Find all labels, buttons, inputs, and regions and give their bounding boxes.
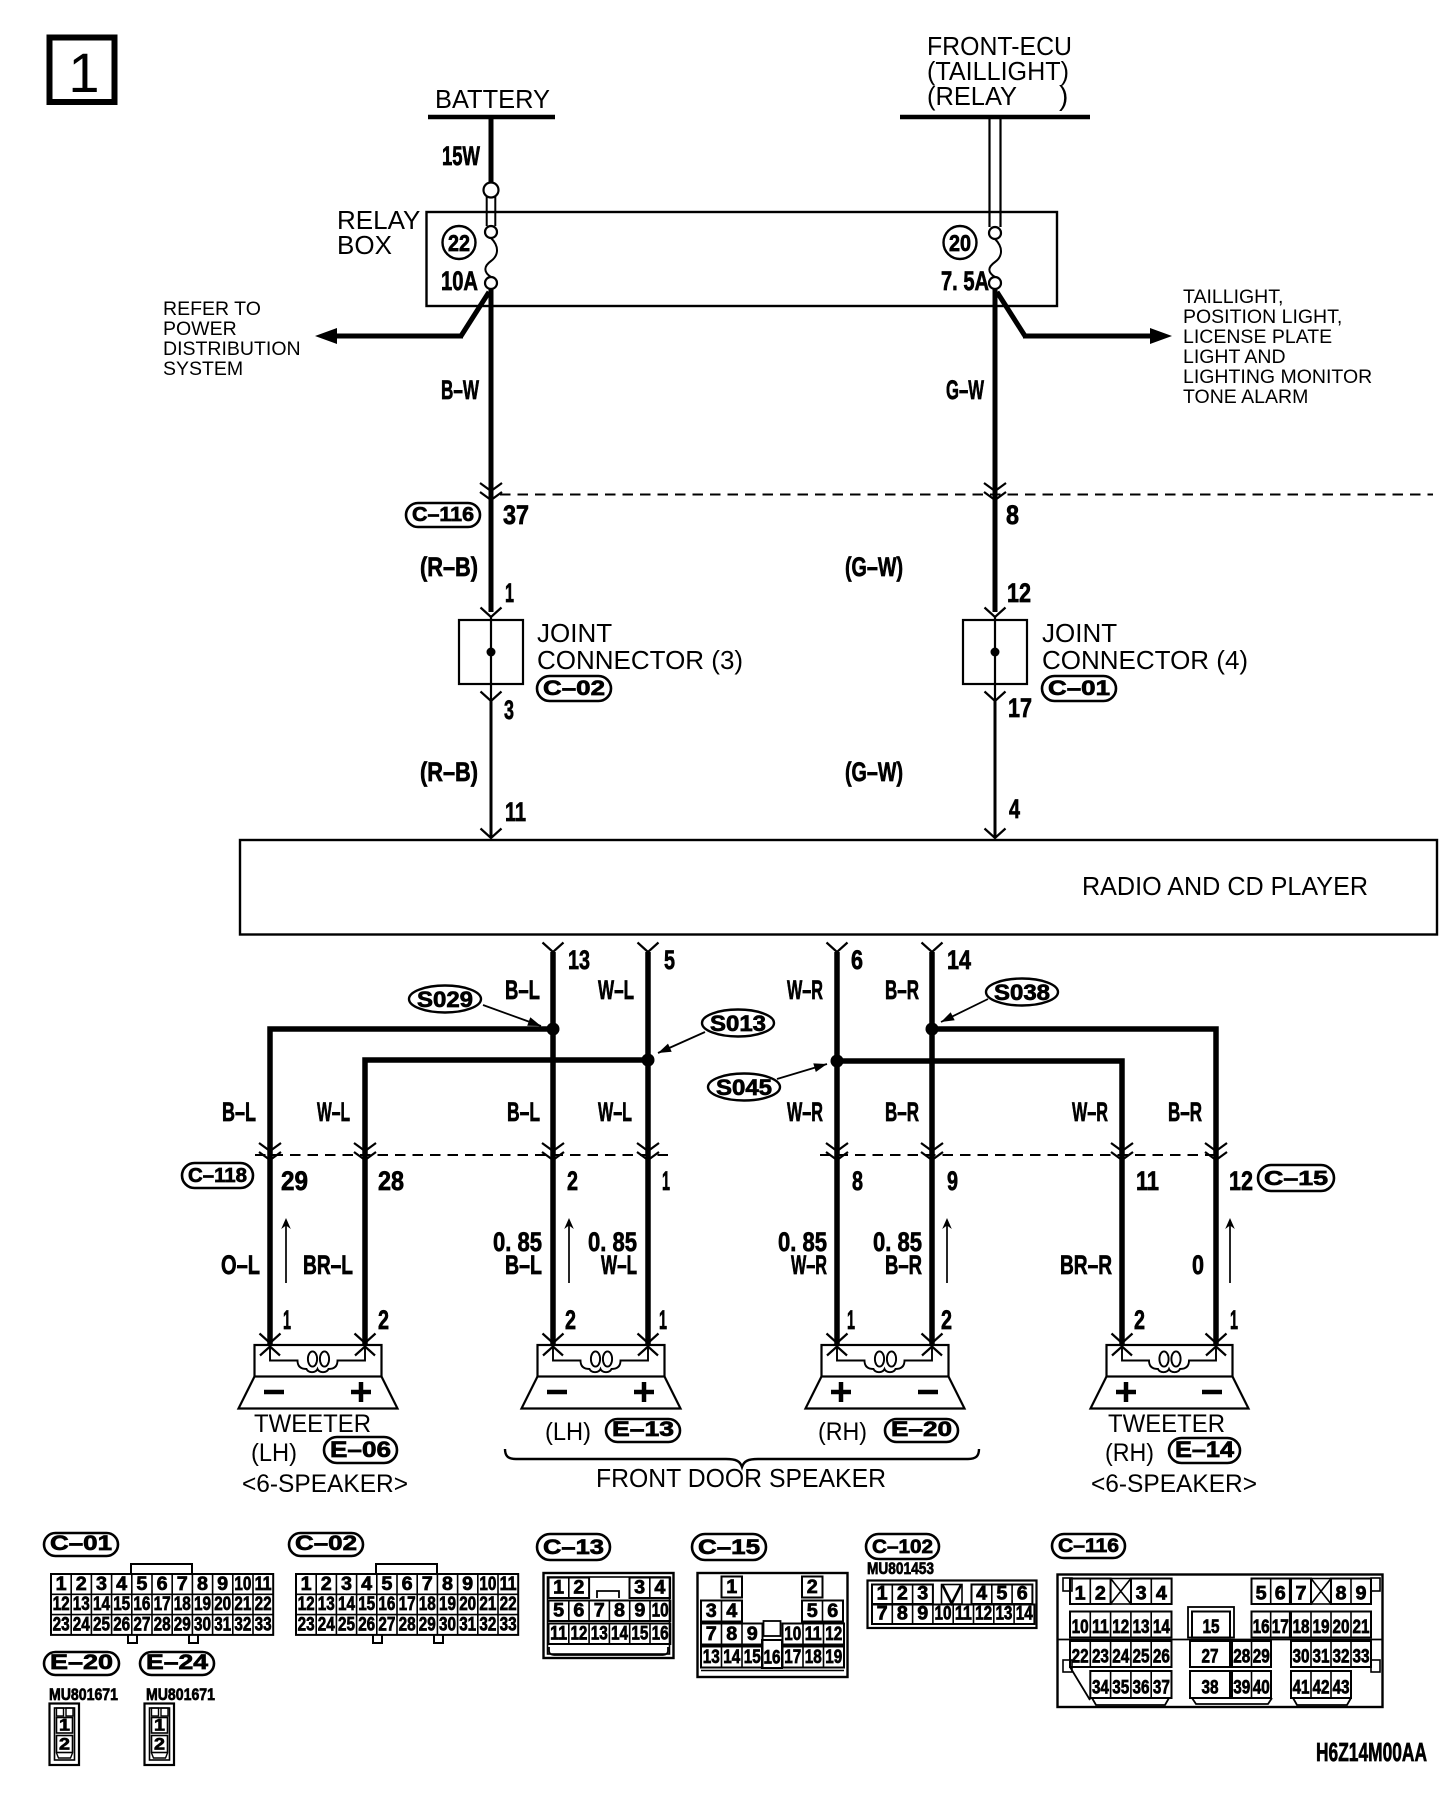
svg-text:1: 1 [283,1305,291,1335]
svg-text:32: 32 [1333,1647,1350,1668]
svg-text:15: 15 [631,1624,648,1645]
svg-text:MU801671: MU801671 [146,1685,215,1704]
svg-text:30: 30 [194,1614,211,1635]
svg-text:2: 2 [941,1305,952,1335]
svg-text:29: 29 [281,1166,308,1196]
svg-text:1: 1 [877,1584,888,1605]
svg-text:28: 28 [1233,1647,1250,1668]
wire codes above C-118/C-15 [222,1097,1202,1127]
fuse 22 10A [441,226,497,296]
joint connector (3) C-02 [459,608,743,726]
svg-text:17: 17 [154,1594,171,1615]
chevron crossing at x=932 [921,1143,943,1160]
svg-text:12: 12 [1229,1166,1253,1196]
svg-text:2: 2 [59,1735,70,1754]
up arrow 4 [1225,1218,1235,1283]
svg-text:S029: S029 [417,987,473,1012]
svg-text:18: 18 [419,1594,436,1615]
svg-text:POWER: POWER [163,318,237,340]
svg-text:16: 16 [764,1648,781,1669]
svg-text:14: 14 [338,1594,355,1615]
svg-text:E–24: E–24 [146,1651,208,1674]
svg-text:(R–B): (R–B) [420,552,478,582]
svg-text:14: 14 [1153,1617,1170,1638]
svg-text:13: 13 [568,945,590,975]
svg-text:B–L: B–L [222,1097,256,1127]
svg-text:2: 2 [567,1166,578,1196]
svg-text:BOX: BOX [337,230,392,260]
svg-text:33: 33 [500,1614,517,1635]
svg-text:2: 2 [321,1574,332,1595]
svg-text:11: 11 [255,1574,272,1595]
wire (R-B) lower [420,701,526,838]
svg-text:B–W: B–W [441,375,479,405]
svg-text:16: 16 [652,1624,669,1645]
wire BR-R [1060,1250,1112,1280]
splice S045 [708,1055,844,1101]
svg-text:26: 26 [113,1614,130,1635]
svg-text:17: 17 [399,1594,416,1615]
svg-text:7. 5A: 7. 5A [941,266,989,296]
svg-text:8: 8 [1336,1584,1347,1605]
svg-text:30: 30 [1293,1647,1310,1668]
battery [428,84,555,117]
svg-text:22: 22 [500,1594,517,1615]
speaker entry chevrons x=837 [827,1334,848,1356]
svg-text:9: 9 [217,1574,228,1595]
connector C-01 pinout [44,1532,273,1643]
connector C-15 pinout [692,1534,848,1677]
svg-text:4: 4 [726,1601,737,1622]
connector C-02 pinout [289,1532,518,1643]
svg-text:5: 5 [807,1601,818,1622]
wire 0.85 B-L [493,1227,542,1280]
svg-text:4: 4 [361,1574,372,1595]
speaker entry chevrons x=932 [922,1334,943,1356]
svg-text:TONE ALARM: TONE ALARM [1183,386,1308,408]
svg-text:14: 14 [1016,1604,1033,1625]
wire 0.85 W-L [588,1227,637,1280]
svg-text:C–118: C–118 [188,1165,247,1187]
svg-text:21: 21 [1353,1617,1370,1638]
svg-text:6: 6 [827,1601,838,1622]
svg-text:24: 24 [318,1614,335,1635]
svg-text:4: 4 [654,1578,665,1599]
tweeter RH speaker E-14 [1091,1345,1258,1498]
svg-text:2: 2 [76,1574,87,1595]
wire W-R main [787,952,837,1345]
svg-text:14: 14 [723,1647,740,1668]
speaker entry chevrons x=365 [355,1334,376,1356]
svg-text:33: 33 [255,1614,272,1635]
svg-text:10: 10 [935,1604,952,1625]
svg-text:7: 7 [706,1624,717,1645]
svg-text:9: 9 [1356,1584,1367,1605]
up arrow 1 [281,1218,291,1283]
svg-text:20: 20 [459,1594,476,1615]
svg-text:27: 27 [1202,1647,1219,1668]
svg-text:1: 1 [726,1577,737,1598]
svg-text:C–13: C–13 [543,1536,604,1559]
svg-text:CONNECTOR (3): CONNECTOR (3) [537,645,743,675]
svg-text:8: 8 [614,1601,625,1622]
svg-text:TWEETER: TWEETER [254,1410,371,1438]
branch wire to tweeter LH pin2 [365,1060,648,1345]
wire 0.85 B-R [873,1227,922,1280]
speaker entry chevrons x=270 [260,1334,281,1356]
svg-text:15W: 15W [442,141,480,171]
svg-text:S013: S013 [710,1011,766,1036]
svg-text:(RH): (RH) [1105,1439,1154,1467]
svg-text:35: 35 [1112,1678,1129,1699]
wire 0 [1192,1250,1204,1280]
svg-text:7: 7 [877,1604,888,1625]
svg-text:(RH): (RH) [818,1418,867,1446]
tweeter LH speaker E-06 [239,1345,409,1498]
svg-text:W–R: W–R [1072,1097,1108,1127]
refer to power distribution system arrow [163,292,489,380]
svg-text:W–L: W–L [598,1097,632,1127]
dashed harness line C-15 [820,1154,1223,1156]
chevron crossing at x=365 [354,1143,376,1160]
svg-text:(RELAY: (RELAY [927,81,1017,111]
svg-text:12: 12 [975,1604,992,1625]
svg-text:34: 34 [1092,1678,1109,1699]
svg-text:11: 11 [550,1624,567,1645]
svg-text:16: 16 [133,1594,150,1615]
svg-text:E–20: E–20 [891,1418,952,1441]
radio pin 13 [543,943,591,976]
svg-text:12: 12 [1007,578,1031,608]
up arrow 2 [564,1218,574,1283]
svg-text:0: 0 [1192,1250,1204,1280]
svg-text:MU801671: MU801671 [49,1685,118,1704]
svg-text:12: 12 [825,1624,842,1645]
wire B-W [441,289,491,612]
svg-text:29: 29 [1253,1647,1270,1668]
svg-text:18: 18 [174,1594,191,1615]
svg-text:1: 1 [659,1305,667,1335]
svg-text:40: 40 [1253,1678,1270,1699]
svg-text:7: 7 [1296,1584,1307,1605]
connector C-15 label [1258,1165,1334,1191]
svg-text:8: 8 [442,1574,453,1595]
svg-text:11: 11 [805,1624,822,1645]
connector crossing right pin 8 [984,483,1019,530]
svg-text:11: 11 [505,797,526,827]
svg-text:3: 3 [504,695,514,725]
svg-text:E–13: E–13 [612,1418,674,1441]
svg-text:24: 24 [1112,1647,1129,1668]
C-15 pin numbers [852,1166,1253,1196]
svg-text:DISTRIBUTION: DISTRIBUTION [163,338,301,360]
svg-text:C–01: C–01 [1048,677,1110,700]
svg-text:4: 4 [116,1574,127,1595]
svg-text:3: 3 [917,1584,928,1605]
svg-text:3: 3 [706,1601,717,1622]
svg-text:38: 38 [1202,1678,1219,1699]
svg-text:15: 15 [113,1594,130,1615]
svg-text:RADIO AND CD PLAYER: RADIO AND CD PLAYER [1082,871,1368,901]
svg-text:6: 6 [1275,1584,1286,1605]
radio pin 14 [922,943,972,976]
svg-text:BATTERY: BATTERY [435,84,550,114]
svg-text:20: 20 [1333,1617,1350,1638]
svg-text:1: 1 [59,1716,70,1735]
svg-text:1: 1 [154,1716,165,1735]
svg-text:6: 6 [573,1601,584,1622]
svg-text:28: 28 [399,1614,416,1635]
svg-text:37: 37 [1153,1678,1170,1699]
svg-text:2: 2 [378,1305,389,1335]
svg-text:SYSTEM: SYSTEM [163,358,243,380]
svg-text:5: 5 [1256,1584,1267,1605]
taillight etc arrow [997,286,1372,408]
page number 1 box [50,38,115,105]
wire (R-B) label [420,552,514,608]
svg-text:31: 31 [459,1614,476,1635]
svg-text:6: 6 [157,1574,168,1595]
splice S013 [642,1010,775,1067]
svg-text:(LH): (LH) [251,1439,297,1467]
svg-text:(G–W): (G–W) [845,552,903,582]
svg-text:<6-SPEAKER>: <6-SPEAKER> [242,1470,408,1498]
svg-text:28: 28 [154,1614,171,1635]
svg-text:6: 6 [402,1574,413,1595]
svg-text:13: 13 [73,1594,90,1615]
svg-text:TAILLIGHT,: TAILLIGHT, [1183,286,1283,308]
svg-text:19: 19 [439,1594,456,1615]
svg-text:14: 14 [947,945,971,975]
svg-text:2: 2 [807,1577,818,1598]
svg-text:(LH): (LH) [545,1418,591,1446]
svg-text:7: 7 [594,1601,605,1622]
branch wire to tweeter RH pin1 [932,1029,1216,1345]
svg-text:5: 5 [136,1574,147,1595]
connector E-20 pinout [44,1651,119,1765]
svg-text:C–01: C–01 [50,1532,112,1555]
drawing code H6Z14M00AA [1316,1737,1427,1767]
svg-text:22: 22 [255,1594,272,1615]
wire W-L main [598,952,648,1345]
svg-text:20: 20 [214,1594,231,1615]
svg-text:TWEETER: TWEETER [1108,1410,1225,1438]
svg-text:33: 33 [1353,1647,1370,1668]
svg-text:32: 32 [234,1614,251,1635]
svg-text:9: 9 [634,1601,645,1622]
svg-text:W–R: W–R [791,1250,827,1280]
svg-text:1: 1 [662,1166,670,1196]
wire from battery [489,117,494,183]
svg-text:8: 8 [197,1574,208,1595]
joint connector (4) C-01 [963,608,1248,724]
svg-text:2: 2 [573,1578,584,1599]
svg-text:O–L: O–L [221,1250,260,1280]
C-118 pin numbers [281,1166,670,1196]
svg-text:FRONT DOOR SPEAKER: FRONT DOOR SPEAKER [596,1463,886,1493]
speaker entry chevrons x=1122 [1112,1334,1133,1356]
svg-text:43: 43 [1333,1678,1350,1699]
front door speaker LH E-13 [522,1345,681,1446]
wire B-R main [885,952,932,1345]
double wire from front-ECU [990,117,1001,227]
svg-text:10: 10 [784,1624,801,1645]
svg-text:19: 19 [1313,1617,1330,1638]
svg-text:17: 17 [1008,693,1032,723]
svg-text:): ) [1059,80,1068,111]
radio pin 5 [638,943,676,976]
wire B-L main [505,952,553,1345]
dashed harness line C-118 [255,1154,668,1156]
chevron crossing at x=837 [826,1143,848,1160]
branch wire to tweeter RH pin2 [837,1061,1122,1345]
svg-text:12: 12 [53,1594,70,1615]
svg-text:1: 1 [1075,1584,1086,1605]
speaker entry chevrons x=553 [543,1334,564,1356]
svg-text:MU801453: MU801453 [867,1559,934,1578]
svg-text:2: 2 [154,1735,165,1754]
svg-text:8: 8 [897,1604,908,1625]
svg-text:1: 1 [553,1578,564,1599]
svg-text:18: 18 [1293,1617,1310,1638]
svg-text:2: 2 [565,1305,576,1335]
svg-text:17: 17 [784,1647,801,1668]
svg-text:10: 10 [479,1574,496,1595]
svg-text:6: 6 [851,945,863,975]
svg-text:19: 19 [194,1594,211,1615]
svg-text:W–R: W–R [787,975,823,1005]
front door speaker RH E-20 [806,1345,965,1446]
svg-text:16: 16 [1253,1617,1270,1638]
svg-text:2: 2 [897,1584,908,1605]
svg-text:3: 3 [1136,1584,1147,1605]
dashed harness line C-116 [500,494,1433,496]
svg-text:13: 13 [591,1624,608,1645]
svg-text:23: 23 [53,1614,70,1635]
svg-text:10: 10 [1072,1617,1089,1638]
svg-text:11: 11 [500,1574,517,1595]
front door speaker brace [505,1449,979,1493]
svg-text:25: 25 [93,1614,110,1635]
svg-text:1: 1 [1230,1305,1238,1335]
svg-text:15: 15 [1203,1617,1220,1638]
up arrow 3 [942,1218,952,1283]
svg-text:W–L: W–L [598,975,634,1005]
svg-text:31: 31 [1313,1647,1330,1668]
svg-text:5: 5 [553,1601,564,1622]
svg-text:1: 1 [301,1574,312,1595]
svg-text:BR–R: BR–R [1060,1250,1112,1280]
svg-text:14: 14 [611,1624,628,1645]
svg-text:23: 23 [298,1614,315,1635]
svg-text:E–14: E–14 [1175,1437,1235,1462]
svg-text:B–L: B–L [507,1097,540,1127]
svg-text:12: 12 [1112,1617,1129,1638]
svg-text:JOINT: JOINT [1042,618,1117,648]
svg-text:13: 13 [703,1647,720,1668]
svg-text:C–02: C–02 [543,677,605,700]
svg-text:2: 2 [1134,1305,1145,1335]
svg-text:JOINT: JOINT [537,618,612,648]
connector C-118 [182,1163,253,1188]
svg-text:E–06: E–06 [330,1437,391,1462]
svg-text:17: 17 [1272,1617,1289,1638]
svg-text:9: 9 [747,1624,758,1645]
chevron crossing at x=553 [542,1143,564,1160]
svg-text:4: 4 [976,1584,987,1605]
svg-text:20: 20 [949,230,971,256]
svg-text:5: 5 [381,1574,392,1595]
svg-text:H6Z14M00AA: H6Z14M00AA [1316,1737,1427,1767]
svg-text:(G–W): (G–W) [845,757,903,787]
svg-text:25: 25 [338,1614,355,1635]
svg-text:BR–L: BR–L [303,1250,353,1280]
svg-text:31: 31 [214,1614,231,1635]
svg-text:16: 16 [378,1594,395,1615]
svg-text:36: 36 [1133,1678,1150,1699]
speaker entry chevrons x=648 [638,1334,659,1356]
radio pin 6 [827,943,864,976]
svg-text:LIGHTING MONITOR: LIGHTING MONITOR [1183,366,1372,388]
connector C-102 pinout [866,1534,1037,1628]
svg-text:25: 25 [1133,1647,1150,1668]
FRONT-ECU (TAILLIGHT RELAY) [900,31,1090,117]
svg-text:B–R: B–R [885,975,919,1005]
svg-text:13: 13 [1133,1617,1150,1638]
wire 0.85 W-R [778,1227,827,1280]
svg-text:C–116: C–116 [412,504,474,526]
svg-text:13: 13 [995,1604,1012,1625]
svg-text:B–R: B–R [885,1250,922,1280]
svg-text:C–102: C–102 [872,1537,933,1558]
svg-text:B–R: B–R [885,1097,919,1127]
svg-text:10: 10 [652,1601,669,1622]
svg-text:22: 22 [448,230,470,256]
svg-text:8: 8 [1006,500,1019,530]
radio and CD player box [240,840,1437,935]
connector C-13 pinout [537,1534,674,1658]
speaker entry chevrons x=1216 [1206,1334,1227,1356]
svg-text:4: 4 [1156,1584,1167,1605]
svg-text:23: 23 [1092,1647,1109,1668]
svg-text:(R–B): (R–B) [420,757,478,787]
svg-text:11: 11 [1136,1166,1159,1196]
svg-text:3: 3 [634,1578,645,1599]
svg-text:C–02: C–02 [295,1532,357,1555]
svg-text:21: 21 [479,1594,496,1615]
relay box [337,205,1057,306]
svg-text:7: 7 [177,1574,188,1595]
svg-text:29: 29 [174,1614,191,1635]
svg-text:12: 12 [570,1624,587,1645]
svg-text:S038: S038 [994,980,1050,1005]
svg-text:5: 5 [664,945,675,975]
branch wire to tweeter LH pin1 [270,1029,553,1345]
svg-text:29: 29 [419,1614,436,1635]
svg-text:13: 13 [318,1594,335,1615]
wire BR-L [303,1250,353,1280]
fuse 20 7.5A [941,226,1001,296]
svg-text:41: 41 [1293,1678,1310,1699]
svg-text:W–R: W–R [787,1097,823,1127]
svg-text:B–R: B–R [1168,1097,1202,1127]
svg-text:<6-SPEAKER>: <6-SPEAKER> [1091,1470,1257,1498]
svg-text:6: 6 [1017,1584,1028,1605]
chevron crossing at x=270 [259,1143,281,1160]
svg-text:15: 15 [358,1594,375,1615]
svg-text:G–W: G–W [946,375,984,405]
svg-text:9: 9 [462,1574,473,1595]
